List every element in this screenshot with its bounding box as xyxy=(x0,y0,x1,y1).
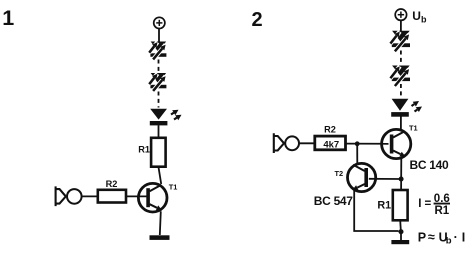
svg-text:=: = xyxy=(425,198,432,210)
svg-text:R1: R1 xyxy=(138,144,150,154)
svg-text:BC 547: BC 547 xyxy=(314,194,354,208)
svg-text:I: I xyxy=(418,198,421,210)
svg-text:2: 2 xyxy=(252,9,263,31)
svg-text:I: I xyxy=(462,230,465,244)
svg-text:U: U xyxy=(412,9,421,23)
svg-text:R2: R2 xyxy=(324,125,336,135)
svg-text:R1: R1 xyxy=(434,205,449,217)
svg-text:P: P xyxy=(418,230,426,244)
svg-text:4k7: 4k7 xyxy=(323,139,339,150)
svg-text:T2: T2 xyxy=(335,169,344,178)
svg-text:T1: T1 xyxy=(169,182,178,191)
svg-text:b: b xyxy=(421,14,427,24)
svg-text:≈: ≈ xyxy=(428,230,435,244)
svg-text:R2: R2 xyxy=(106,179,118,189)
svg-text:R1: R1 xyxy=(377,199,391,211)
svg-text:·: · xyxy=(454,230,458,244)
svg-text:T1: T1 xyxy=(409,123,418,132)
svg-text:BC 140: BC 140 xyxy=(410,158,450,172)
svg-text:1: 1 xyxy=(2,6,14,30)
svg-text:b: b xyxy=(446,236,452,247)
